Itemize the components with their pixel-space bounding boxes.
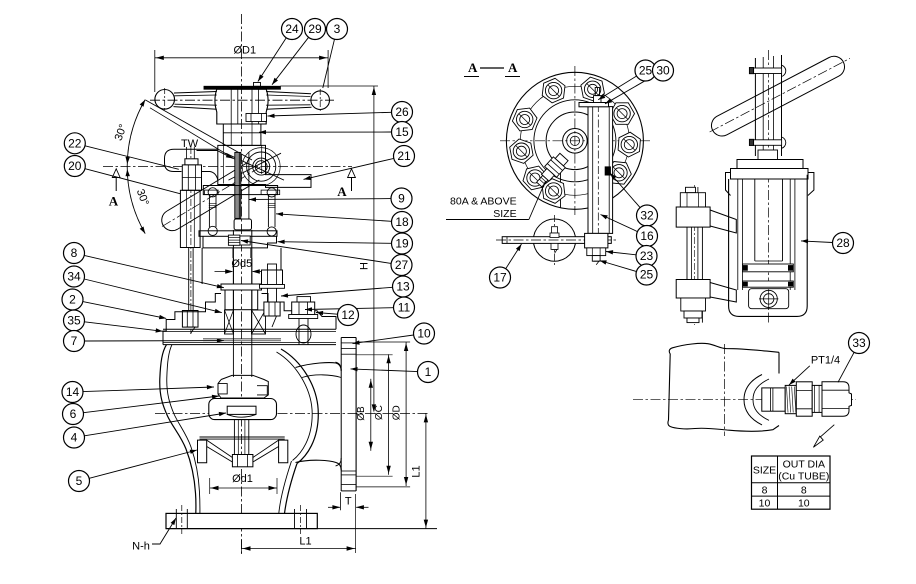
A-A center boss: [546, 112, 604, 170]
dim T: [339, 492, 341, 510]
A-A bolt 36deg: [607, 162, 632, 185]
hub lock nut item26: [246, 114, 267, 122]
disc face ring: [227, 406, 256, 414]
leader: [601, 215, 638, 232]
svg-text:15: 15: [395, 125, 409, 139]
A-A clamp nut: [587, 248, 606, 256]
dim L1 vertical: [425, 413, 427, 528]
balloon 6: [63, 404, 84, 425]
outlet flange back: [340, 338, 342, 492]
balloon 19: [392, 233, 413, 254]
leader 6: [83, 396, 219, 413]
centerline wheel: [150, 99, 334, 101]
svg-text:(Cu TUBE): (Cu TUBE): [778, 471, 829, 483]
dim H: [280, 85, 378, 87]
leader 20: [85, 169, 181, 194]
swing bolt upper block: [676, 207, 710, 227]
yoke left arm: [165, 149, 218, 171]
svg-text:ØD: ØD: [392, 405, 403, 420]
bonnet body left profile: [163, 294, 221, 345]
bonnet body right profile: [262, 294, 337, 330]
leader 1: [351, 369, 418, 372]
disc body: [209, 399, 277, 420]
A-A bolt 4deg: [618, 132, 640, 157]
balloon 28: [833, 233, 854, 254]
side view bottom box: [749, 289, 789, 309]
leader 21: [304, 158, 394, 179]
svg-text:1: 1: [425, 365, 432, 379]
A-A centerlines: [500, 140, 650, 142]
balloon 13: [393, 276, 414, 297]
svg-text:11: 11: [398, 301, 411, 315]
svg-text:16: 16: [640, 229, 654, 243]
svg-text:10: 10: [759, 498, 771, 510]
leader 12: [316, 313, 338, 315]
outlet flange face: [355, 338, 357, 492]
eye bolt 12: [297, 297, 311, 302]
balloon 10: [414, 323, 435, 344]
balloon 2: [62, 289, 83, 310]
A-A bolt 137deg: [523, 166, 547, 190]
stem tube mid: [232, 230, 234, 310]
section arrow A left: [115, 178, 117, 192]
side view housing collar: [758, 150, 778, 160]
leader 35: [84, 322, 162, 332]
leader 22: [85, 146, 179, 170]
svg-text:23: 23: [640, 249, 654, 263]
flange hub fillets: [336, 362, 342, 370]
leader 3: [323, 39, 335, 88]
svg-text:7: 7: [71, 334, 78, 348]
leader 26: [268, 112, 392, 116]
leader: [801, 241, 833, 243]
handwheel top plate: [204, 86, 280, 89]
seat diffuser: [200, 436, 285, 438]
side view swing bolt: [686, 195, 688, 323]
svg-text:H: H: [359, 262, 371, 270]
svg-text:8: 8: [801, 484, 807, 496]
svg-text:10: 10: [417, 327, 431, 341]
svg-text:TW: TW: [181, 138, 199, 150]
balloon 3: [327, 19, 348, 40]
leader 34: [84, 279, 222, 313]
svg-text:ØD1: ØD1: [233, 45, 256, 57]
svg-text:21: 21: [397, 149, 411, 163]
svg-text:A: A: [109, 194, 119, 209]
balloon 16: [637, 226, 658, 247]
dim oC: [388, 354, 390, 475]
A-A bolt -30deg: [610, 103, 635, 125]
leader 10: [353, 335, 414, 344]
A-A outer circle: [506, 72, 643, 209]
gland flange plate: [199, 231, 277, 237]
leader 15: [259, 131, 392, 133]
lever hidden cross lines: [226, 153, 285, 180]
svg-text:27: 27: [395, 258, 409, 272]
30deg arc: [127, 100, 145, 234]
leader 14: [83, 387, 214, 392]
balloon 27: [391, 255, 412, 276]
svg-text:ØB: ØB: [356, 406, 367, 421]
balloon 18: [392, 212, 413, 233]
gasket lines: [203, 338, 281, 340]
A-A bolt -71deg: [581, 77, 605, 101]
swing bolt lower nuts: [681, 298, 706, 311]
svg-text:8: 8: [71, 246, 78, 260]
svg-text:A: A: [337, 184, 347, 199]
detail boss arc inner: [753, 379, 769, 420]
balloon 20: [64, 156, 85, 177]
arrow to table: [821, 425, 835, 437]
balloon 15: [392, 122, 413, 143]
centerline vertical main valve: [241, 14, 243, 556]
svg-text:35: 35: [67, 314, 81, 328]
svg-text:13: 13: [396, 280, 410, 294]
leader: [838, 352, 854, 382]
bonnet flange band: [163, 328, 336, 330]
A-A lower hub circle: [533, 219, 575, 261]
balloon 35: [64, 310, 85, 331]
outlet flange bottom stub: [341, 490, 356, 492]
balloon 9: [391, 188, 412, 209]
balloon 14: [62, 382, 83, 403]
detail spacer: [812, 385, 822, 412]
centerline pipe axis: [155, 412, 430, 414]
set screw item24 target: [254, 83, 261, 87]
svg-text:6: 6: [70, 407, 77, 421]
gland bolt bottom nut: [182, 311, 198, 328]
balloon 29: [305, 19, 326, 40]
balloon 1: [418, 362, 439, 383]
balloon 11: [394, 297, 415, 318]
leader 9: [249, 198, 391, 201]
balloon 25: [635, 60, 656, 81]
stud bolt 13: [268, 264, 277, 270]
leader 2: [83, 302, 166, 319]
balloon 8: [64, 243, 85, 264]
packing right: [252, 310, 266, 334]
stem end: [232, 310, 234, 377]
stem outline: [248, 152, 250, 219]
svg-text:2: 2: [69, 293, 76, 307]
body lower right wall: [285, 464, 298, 514]
yoke plate: [203, 186, 277, 195]
side view centerline: [768, 50, 770, 325]
gland bolt centerline: [190, 147, 192, 334]
guide rod left: [208, 195, 210, 227]
A-A inner flange circle: [534, 100, 616, 182]
A-A bolt -113deg: [542, 78, 565, 103]
leader: [506, 244, 522, 269]
gland bolt top nut: [185, 159, 198, 165]
side view extension rod: [754, 58, 756, 156]
leader: [600, 261, 637, 272]
yoke nut boss circles: [255, 161, 267, 173]
detail nipple: [762, 388, 785, 411]
svg-text:19: 19: [395, 237, 409, 251]
body outer left wall: [160, 345, 196, 514]
stem collar: [234, 219, 251, 230]
balloon 5: [69, 471, 90, 492]
detail hex nut: [796, 382, 812, 416]
side view pin lower: [749, 139, 753, 145]
A-A packing black square item32: [605, 167, 610, 175]
gland bolt shaft: [188, 248, 190, 311]
leader 5: [89, 450, 197, 478]
A-A neck silhouette: [560, 172, 562, 208]
leader 19: [278, 242, 392, 244]
balloon 34: [64, 266, 85, 287]
A-A clamp block: [585, 233, 608, 248]
detail body centerline: [724, 344, 726, 436]
leader: [606, 252, 636, 255]
handwheel spokes right: [266, 92, 311, 94]
leader 13: [281, 287, 393, 296]
svg-text:26: 26: [395, 105, 409, 119]
detail thread: [785, 385, 796, 413]
handwheel rim left: [155, 90, 175, 110]
outlet upper neck: [296, 363, 342, 371]
section arrow A right: [351, 178, 353, 192]
lever upper 30deg line: [146, 100, 253, 160]
detail boss arc outer: [744, 375, 762, 425]
leader 29: [272, 37, 309, 84]
gland follower: [221, 284, 262, 290]
balloon 30: [653, 60, 674, 81]
disc lower guide: [233, 420, 235, 455]
size table: [752, 456, 831, 509]
svg-text:20: 20: [68, 159, 82, 173]
balloon 24: [282, 19, 303, 40]
handwheel spokes left: [174, 92, 217, 94]
svg-text:SIZE: SIZE: [493, 208, 516, 220]
bonnet neck: [201, 248, 203, 284]
handwheel hub: [215, 89, 268, 124]
svg-text:80A & ABOVE: 80A & ABOVE: [450, 196, 517, 208]
balloon 32: [637, 205, 658, 226]
dim L1 bottom: [242, 548, 356, 550]
A-A bolt -157deg: [512, 108, 537, 131]
side view stem channel: [754, 179, 756, 261]
svg-text:5: 5: [76, 474, 83, 488]
balloon 12: [338, 305, 359, 326]
A-A bypass pipe: [588, 107, 613, 234]
body right outer bulge: [281, 349, 318, 464]
lever capsule lower 30deg: [178, 180, 259, 229]
leader: [605, 76, 654, 104]
guide rod right: [267, 195, 269, 227]
foot flange: [166, 513, 317, 528]
body right inner bulge: [277, 352, 313, 461]
svg-text:33: 33: [852, 336, 866, 350]
svg-text:18: 18: [395, 215, 409, 229]
svg-text:8: 8: [762, 484, 768, 496]
balloon 21: [394, 146, 415, 167]
detail body outline: [668, 343, 779, 431]
leader 24: [258, 38, 286, 82]
svg-text:PT1/4: PT1/4: [811, 355, 840, 367]
svg-text:28: 28: [836, 236, 850, 250]
svg-text:3: 3: [334, 22, 341, 36]
svg-text:L1: L1: [299, 536, 311, 548]
svg-text:22: 22: [68, 137, 82, 151]
foot bottom line extended: [166, 528, 437, 530]
leader: [610, 173, 640, 208]
seat center box: [232, 455, 253, 467]
svg-text:12: 12: [341, 308, 355, 322]
packing left: [225, 310, 234, 334]
svg-text:9: 9: [398, 192, 405, 206]
outlet lower neck: [296, 460, 342, 470]
dim oD: [405, 342, 407, 486]
gland bolt stud top: [186, 147, 188, 159]
svg-text:17: 17: [493, 271, 507, 285]
body inner left wall: [167, 345, 200, 514]
svg-text:L1: L1: [411, 465, 423, 477]
balloon 25: [636, 264, 657, 285]
leader: [598, 76, 636, 100]
side view lever capsule: [711, 56, 844, 136]
A-A bolt 169deg: [510, 139, 533, 163]
dim oB: [370, 379, 372, 451]
svg-text:A: A: [508, 60, 518, 75]
outlet flange top stub: [341, 337, 356, 339]
svg-text:14: 14: [66, 385, 80, 399]
svg-text:32: 32: [640, 209, 654, 223]
leader 7: [85, 340, 224, 342]
svg-text:34: 34: [67, 270, 81, 284]
svg-text:10: 10: [798, 498, 810, 510]
leader 8: [84, 255, 224, 287]
svg-text:25: 25: [640, 268, 654, 282]
balloon 17: [490, 267, 511, 288]
handwheel rim right: [311, 91, 330, 110]
svg-text:24: 24: [285, 22, 299, 36]
svg-text:T: T: [345, 496, 352, 508]
stem threaded gray: [235, 152, 241, 218]
leader 4: [84, 413, 226, 436]
balloon 7: [64, 331, 85, 352]
balloon 33: [849, 333, 870, 354]
side view band1: [743, 264, 794, 272]
A-A pipe top plate: [579, 103, 609, 107]
dim oD1 top: [154, 50, 156, 92]
svg-text:29: 29: [308, 22, 322, 36]
A-A bolt 113deg: [542, 179, 565, 204]
swing bolt lower block: [676, 280, 710, 299]
detail union nut: [822, 382, 852, 416]
balloon 4: [64, 427, 85, 448]
svg-text:Ød1: Ød1: [232, 473, 253, 485]
A-A small bolt in hub: [552, 227, 558, 233]
stem lower tube: [232, 258, 234, 310]
leader 18: [276, 214, 392, 222]
side view housing ears: [726, 173, 731, 196]
svg-text:SIZE: SIZE: [753, 465, 776, 477]
svg-text:N-h: N-h: [132, 541, 150, 553]
gland bolt hex nut: [182, 165, 201, 190]
stem bell below hub: [223, 124, 261, 145]
side view band2: [743, 281, 794, 287]
gland bolt sleeve: [180, 190, 200, 247]
svg-text:OUT DIA: OUT DIA: [783, 459, 825, 471]
yoke head: [218, 145, 311, 187]
svg-text:4: 4: [71, 431, 78, 445]
side view arms: [710, 210, 736, 233]
A-A bolt circle: [520, 86, 629, 195]
side view housing body: [729, 175, 808, 317]
seat ribs: [207, 440, 233, 457]
gland nut serrated item27: [228, 235, 240, 245]
side view pin upper: [749, 68, 753, 74]
leader 27: [241, 241, 391, 264]
svg-text:A: A: [468, 60, 478, 75]
leader 11: [305, 308, 394, 310]
disc holder: [218, 375, 268, 398]
balloon 22: [64, 133, 85, 154]
svg-text:30: 30: [656, 64, 670, 78]
A-A drain boss: [533, 152, 570, 190]
detail pipe axis: [633, 399, 856, 401]
svg-text:25: 25: [639, 64, 653, 78]
balloon 23: [636, 246, 657, 267]
centerline yoke nut axis y166.6: [103, 166, 352, 168]
svg-text:Ød5: Ød5: [231, 258, 252, 270]
svg-text:ØC: ØC: [374, 405, 385, 420]
A-A handle rod item17: [502, 237, 611, 244]
balloon 26: [392, 102, 413, 123]
